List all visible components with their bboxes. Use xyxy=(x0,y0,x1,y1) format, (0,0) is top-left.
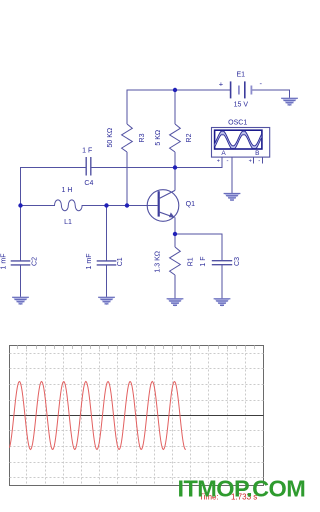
OSC1 terminal A+ stub xyxy=(221,157,223,168)
ground (C3) xyxy=(214,298,231,306)
svg-text:1 F: 1 F xyxy=(82,148,92,155)
resistor R1 xyxy=(174,234,176,247)
svg-text:50 KΩ: 50 KΩ xyxy=(107,128,114,148)
graph plot area xyxy=(10,346,264,486)
capacitor C2 xyxy=(11,260,31,262)
svg-text:1 mF: 1 mF xyxy=(0,254,7,270)
svg-text:1 F: 1 F xyxy=(200,256,207,266)
junction dots xyxy=(173,88,177,92)
svg-text:C2: C2 xyxy=(31,257,38,266)
transistor Q1 xyxy=(147,190,179,222)
ground (R1) xyxy=(167,298,184,306)
capacitor C4 xyxy=(85,157,87,176)
svg-text:+: + xyxy=(249,159,252,165)
svg-text:-: - xyxy=(259,79,262,88)
svg-text:-: - xyxy=(227,159,229,165)
graph top ruler minor ticks xyxy=(18,346,255,350)
resistor R3 xyxy=(122,124,133,152)
svg-text:A: A xyxy=(221,150,226,157)
OSC1 terminal B- stub xyxy=(262,157,264,164)
svg-text:C3: C3 xyxy=(234,257,241,266)
svg-text:15 V: 15 V xyxy=(234,101,249,108)
ground (battery) xyxy=(281,98,298,106)
capacitor C3 xyxy=(212,260,232,262)
wire collector node horizontal xyxy=(91,157,222,168)
svg-text:ITMOP.COM: ITMOP.COM xyxy=(178,476,306,502)
svg-text:C4: C4 xyxy=(84,180,93,187)
svg-text:+: + xyxy=(217,159,220,165)
wire collector vertical xyxy=(174,168,176,191)
svg-text:+: + xyxy=(219,80,224,89)
wire emitter vertical xyxy=(174,217,176,234)
oscilloscope OSC1 box xyxy=(212,128,270,158)
svg-text:5 KΩ: 5 KΩ xyxy=(155,130,162,146)
graph x axis xyxy=(10,415,264,417)
svg-text:Q1: Q1 xyxy=(186,201,195,208)
svg-text:E1: E1 xyxy=(237,71,246,78)
svg-text:C1: C1 xyxy=(117,257,124,266)
svg-text:1.3 KΩ: 1.3 KΩ xyxy=(155,251,162,273)
ground (C2) xyxy=(12,297,29,305)
OSC1 screen xyxy=(215,130,262,149)
svg-text:R1: R1 xyxy=(187,257,194,266)
wire VCC rail left segment xyxy=(127,90,231,124)
svg-text:-: - xyxy=(258,159,260,165)
graph grid xyxy=(10,346,264,486)
svg-text:R2: R2 xyxy=(186,133,193,142)
OSC1 terminal B+ stub xyxy=(253,157,255,164)
capacitor C1 xyxy=(106,206,108,261)
wire R3 bottom to base node xyxy=(126,152,128,206)
resistor R2 xyxy=(174,90,176,124)
svg-text:1 H: 1 H xyxy=(62,187,73,194)
battery E1 xyxy=(231,81,252,98)
wire emitter node to C3 xyxy=(175,234,222,261)
waveform trace xyxy=(10,382,186,450)
wire C4 left to left column xyxy=(21,168,87,261)
svg-text:L1: L1 xyxy=(64,219,72,226)
OSC1 terminal A- stub to ground xyxy=(231,157,233,193)
svg-text:1 mF: 1 mF xyxy=(86,254,93,270)
svg-text:OSC1: OSC1 xyxy=(228,120,247,127)
ground (OSC1 A-) xyxy=(224,193,241,201)
inductor L1 xyxy=(21,200,158,211)
svg-text:R3: R3 xyxy=(139,133,146,142)
wire VCC rail right segment to ground xyxy=(251,90,289,98)
svg-text:B: B xyxy=(255,150,259,157)
ground (C1) xyxy=(98,297,115,305)
